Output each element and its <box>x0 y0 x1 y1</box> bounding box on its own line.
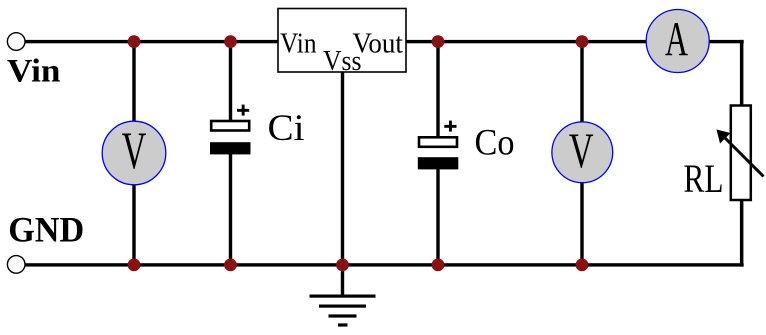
svg-text:Vss: Vss <box>323 45 362 77</box>
svg-text:Co: Co <box>475 123 515 164</box>
junction: bottom rail at Vss/ground <box>336 259 349 272</box>
capacitor C1 (Ci) polarity plus sign <box>237 105 249 116</box>
junction: bottom rail at V1 <box>128 259 141 272</box>
svg-text:Vin: Vin <box>280 27 317 59</box>
svg-text:RL: RL <box>684 156 724 201</box>
capacitor C1 (Ci) top plate <box>211 121 249 131</box>
svg-text:GND: GND <box>8 209 84 249</box>
junction: top rail at V2 <box>576 35 589 48</box>
wire: capacitor Ci top stem <box>229 41 232 125</box>
resistor RL wiper arrowhead <box>717 130 731 144</box>
voltmeter V2 <box>552 122 613 183</box>
junction: top rail at Co <box>432 35 445 48</box>
capacitor C2 (Co) polarity plus sign <box>444 121 456 132</box>
capacitor C2 (Co) bottom plate <box>418 157 459 169</box>
junction: bottom rail at Ci <box>224 259 237 272</box>
junction: top rail at V1 <box>128 35 141 48</box>
capacitor C1 (Ci) bottom plate <box>210 142 251 154</box>
junction: bottom rail at Co <box>432 259 445 272</box>
svg-text:Vin: Vin <box>7 54 61 90</box>
resistor RL wiper arrow shaft <box>725 138 764 177</box>
capacitor C2 (Co) top plate <box>419 137 457 147</box>
wire: GND bottom rail <box>25 263 744 266</box>
svg-text:A: A <box>665 11 688 66</box>
wire: capacitor Ci bottom stem <box>229 148 232 265</box>
wire: capacitor Co bottom stem <box>436 163 439 265</box>
junction: top rail at Ci <box>224 35 237 48</box>
terminal: Vin input port <box>7 33 25 51</box>
terminal: GND input port <box>7 256 25 274</box>
resistor RL body <box>731 106 751 201</box>
ammeter A1 <box>646 10 709 73</box>
wire: capacitor Co top stem <box>436 41 439 141</box>
junction: bottom rail at V2 <box>576 259 589 272</box>
svg-text:Ci: Ci <box>268 108 305 149</box>
op-amp U1 regulator box <box>278 9 406 73</box>
wire: Vin top rail from input terminal to right corner <box>25 40 744 43</box>
wire: voltmeter V2 stem <box>580 41 583 265</box>
ground <box>310 295 376 327</box>
wire: right vertical drop from corner to RL and to bottom rail <box>740 40 744 267</box>
svg-text:V: V <box>122 122 147 180</box>
wire: regulator Vss stem down to ground <box>341 70 344 296</box>
voltmeter V1 <box>102 121 166 185</box>
wire: voltmeter V1 stem <box>132 41 135 265</box>
svg-text:V: V <box>569 122 594 178</box>
